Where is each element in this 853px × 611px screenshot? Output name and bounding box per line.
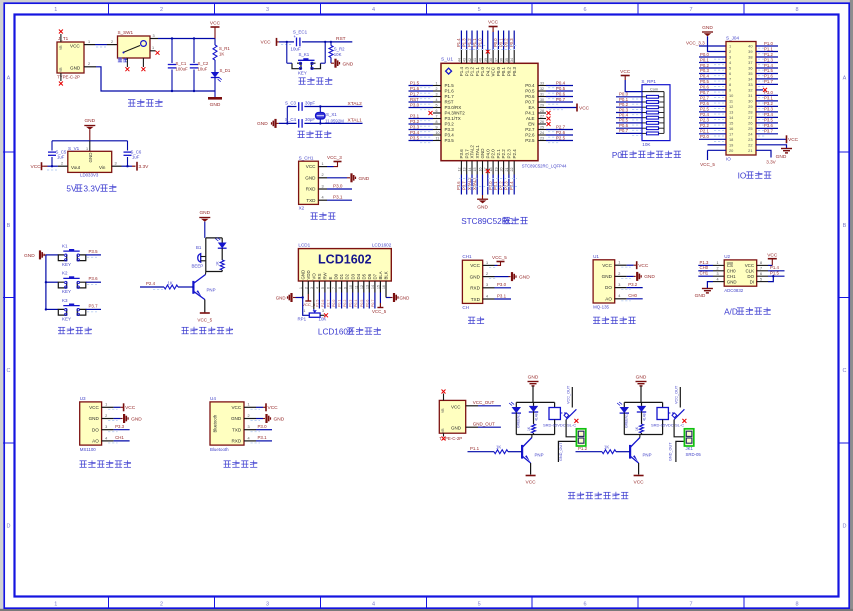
svg-text:13: 13 xyxy=(729,110,733,115)
svg-text:CH0: CH0 xyxy=(727,269,736,274)
no-ERC cross RP1 right xyxy=(324,313,328,317)
chip top pin 35 P0.2 xyxy=(504,31,512,77)
svg-text:GND: GND xyxy=(528,375,539,381)
svg-text:SRD-05VDC-SL-C: SRD-05VDC-SL-C xyxy=(543,422,576,427)
svg-text:P2.5: P2.5 xyxy=(700,107,709,112)
caption relay control circuit xyxy=(568,492,628,499)
resistor network S_RP1 10K xyxy=(641,79,670,147)
svg-text:P2.7: P2.7 xyxy=(700,96,709,101)
chip right pin 31 P0.6 xyxy=(525,91,573,99)
svg-text:1: 1 xyxy=(152,46,154,50)
svg-text:24: 24 xyxy=(540,131,544,135)
svg-text:D1: D1 xyxy=(339,273,344,279)
svg-text:LCD1: LCD1 xyxy=(298,243,310,248)
stub bottom TYPE-C relay xyxy=(442,433,446,440)
svg-text:15: 15 xyxy=(473,168,477,172)
wire GND_OUT branch P1.2 xyxy=(668,441,684,462)
svg-text:P2.2: P2.2 xyxy=(498,181,503,190)
svg-text:1: 1 xyxy=(105,403,107,407)
svg-text:14: 14 xyxy=(468,168,472,172)
svg-text:8: 8 xyxy=(729,82,731,87)
label kaiguan switch xyxy=(118,58,128,62)
svg-text:K3: K3 xyxy=(62,298,68,303)
svg-text:P0.2: P0.2 xyxy=(343,300,347,307)
chip left pin 10 P3.4 xyxy=(409,130,455,138)
svg-text:P1.0: P1.0 xyxy=(480,67,485,77)
svg-text:U1: U1 xyxy=(593,254,599,259)
svg-text:9: 9 xyxy=(729,88,731,93)
resistor 1K relay branch P1.1 xyxy=(527,424,536,435)
svg-text:11: 11 xyxy=(436,137,440,141)
chip right pin 27 ALE xyxy=(526,115,551,122)
pin 2 download to GND xyxy=(318,173,369,182)
transistor PNP relay P1.1 xyxy=(522,435,543,464)
svg-text:DI: DI xyxy=(750,279,754,284)
svg-text:P0.5: P0.5 xyxy=(619,118,629,123)
svg-text:P0.5: P0.5 xyxy=(525,89,535,94)
wire emitter to VCC relay P1.2 xyxy=(634,463,645,486)
svg-text:2: 2 xyxy=(618,272,620,276)
svg-text:B: B xyxy=(7,223,11,229)
svg-text:P3.6: P3.6 xyxy=(456,181,461,190)
svg-text:2: 2 xyxy=(729,49,731,54)
chip right pin 29 EA xyxy=(528,104,589,112)
svg-text:P1.5: P1.5 xyxy=(764,68,773,73)
svg-text:GND: GND xyxy=(776,154,787,160)
pullup resistor element P0.7 xyxy=(616,128,664,135)
svg-text:38: 38 xyxy=(748,55,752,60)
svg-text:GND: GND xyxy=(477,205,488,211)
svg-text:P3.3: P3.3 xyxy=(445,127,455,132)
svg-text:VCC_5: VCC_5 xyxy=(700,162,715,167)
module U4 pin 1 VCC xyxy=(244,403,278,412)
svg-text:P2.6: P2.6 xyxy=(321,300,325,307)
svg-text:P0.2: P0.2 xyxy=(619,102,629,107)
chip bottom pin 18 P2.0 xyxy=(488,149,496,195)
chip left pin 9 P3.3 xyxy=(409,124,455,132)
svg-text:7: 7 xyxy=(436,115,438,119)
io header row 11 xyxy=(699,96,778,104)
svg-text:7: 7 xyxy=(760,267,762,271)
svg-text:X2: X2 xyxy=(299,206,305,211)
ground GND io bottom right xyxy=(776,149,792,161)
svg-text:5: 5 xyxy=(478,602,481,608)
svg-text:S_V1: S_V1 xyxy=(68,146,80,151)
ADC U2 ADC0832 xyxy=(724,254,757,293)
svg-text:2: 2 xyxy=(436,87,438,91)
LCD module LCD1 box xyxy=(298,243,391,281)
io header row 20 xyxy=(708,148,772,158)
svg-text:KEY: KEY xyxy=(298,71,307,76)
pin 2 of J_T1 GND xyxy=(84,62,96,67)
LED alarm xyxy=(215,238,226,261)
svg-text:1: 1 xyxy=(88,40,90,44)
chip top pin 41 P1.1 xyxy=(472,31,480,77)
svg-text:3.3V: 3.3V xyxy=(766,160,776,165)
resistor S_R1 1K xyxy=(213,39,230,61)
svg-text:VCC: VCC xyxy=(602,263,612,268)
svg-text:VB: VB xyxy=(441,428,445,433)
svg-text:17: 17 xyxy=(729,131,733,136)
ground GND relay P1.2 xyxy=(636,375,647,403)
ground GND adc xyxy=(695,289,713,300)
relay switch contact P1.1 xyxy=(560,385,578,423)
svg-text:P0.5: P0.5 xyxy=(360,300,364,307)
svg-text:S_C3: S_C3 xyxy=(285,100,297,105)
power port VCC top right xyxy=(211,27,220,39)
svg-text:P2.3: P2.3 xyxy=(504,181,509,190)
svg-text:P3.0: P3.0 xyxy=(764,90,773,95)
capacitor S_C1 100uF xyxy=(168,39,188,92)
svg-text:P2.2: P2.2 xyxy=(501,149,506,159)
svg-text:GND: GND xyxy=(231,416,242,421)
chip right pin 23 P2.5 xyxy=(525,135,573,143)
chip bottom pin 21 P2.3 xyxy=(504,149,512,195)
svg-text:CH1: CH1 xyxy=(462,254,472,259)
svg-text:Vin: Vin xyxy=(99,165,106,170)
connector TYPE-C-2P relay power xyxy=(439,400,465,441)
svg-text:P0.0: P0.0 xyxy=(700,52,709,57)
svg-text:39: 39 xyxy=(748,49,752,54)
svg-text:MQ-135: MQ-135 xyxy=(593,305,609,310)
svg-text:GND_OUT: GND_OUT xyxy=(473,421,495,426)
svg-text:3: 3 xyxy=(266,7,269,13)
svg-text:P2.2: P2.2 xyxy=(700,123,709,128)
chip left pin 4 RST xyxy=(409,97,454,105)
chip top pin 38 VCC xyxy=(489,32,496,77)
svg-text:CH: CH xyxy=(462,305,469,310)
svg-text:31: 31 xyxy=(540,93,544,97)
LCD pin 14 D7 xyxy=(371,273,378,308)
no-ERC cross J_T1 bottom xyxy=(59,82,63,86)
svg-text:BEEP: BEEP xyxy=(192,264,204,269)
ADC left pin 1 xyxy=(698,260,724,266)
module U3 pin 4 CH1 xyxy=(102,435,130,443)
svg-text:1: 1 xyxy=(618,261,620,265)
LED relay P1.1 xyxy=(509,402,521,435)
serial pin 4 P3.1 xyxy=(483,293,511,299)
caption benzene detection module xyxy=(593,317,636,324)
LCD pin 15 BLA xyxy=(372,271,387,314)
svg-text:DO: DO xyxy=(92,427,99,432)
svg-text:P0.4: P0.4 xyxy=(700,74,709,79)
svg-text:P0.1: P0.1 xyxy=(700,57,709,62)
svg-text:S_RP1: S_RP1 xyxy=(641,79,656,84)
svg-text:2: 2 xyxy=(486,272,488,276)
key K3 xyxy=(45,298,101,322)
svg-text:GND: GND xyxy=(210,102,221,108)
key K2 xyxy=(45,271,101,295)
svg-text:P2.6: P2.6 xyxy=(556,130,566,135)
svg-text:RP1: RP1 xyxy=(298,317,307,322)
svg-text:RST: RST xyxy=(336,36,346,42)
ADC right pin 5 xyxy=(757,275,775,282)
io header row 14 xyxy=(699,112,778,120)
svg-text:34: 34 xyxy=(510,58,514,62)
wire io pin1 VCC_3.3 xyxy=(699,45,726,47)
wire right branch key to rail xyxy=(324,42,326,63)
pin 1 download to VCC_3 xyxy=(318,155,342,167)
svg-text:GND_OUT: GND_OUT xyxy=(559,442,563,461)
svg-text:P3.1/TX: P3.1/TX xyxy=(445,116,461,121)
svg-text:10: 10 xyxy=(436,131,440,135)
svg-text:33: 33 xyxy=(540,82,544,86)
svg-text:4: 4 xyxy=(322,196,324,200)
module U4 pin 4 P3.1 xyxy=(244,435,272,443)
svg-text:9: 9 xyxy=(436,126,438,130)
selection dashes chip bottom xyxy=(459,179,517,187)
svg-text:S_C2: S_C2 xyxy=(198,61,209,66)
svg-text:P2.0: P2.0 xyxy=(491,149,496,159)
svg-text:37: 37 xyxy=(748,60,752,65)
svg-text:P1.7: P1.7 xyxy=(764,79,773,84)
svg-text:C: C xyxy=(843,368,847,374)
svg-text:P2.7: P2.7 xyxy=(556,124,566,129)
svg-text:P2.4: P2.4 xyxy=(512,149,517,159)
svg-text:31: 31 xyxy=(748,93,752,98)
module U1 pin 4 CH0 xyxy=(615,293,643,301)
caption bluetooth module xyxy=(224,460,258,467)
svg-text:IO: IO xyxy=(726,157,731,162)
svg-text:XTAL1: XTAL1 xyxy=(348,118,363,124)
io header row 3 xyxy=(699,52,778,60)
svg-text:3: 3 xyxy=(618,283,620,287)
chip top pin 34 P0.3 xyxy=(509,31,517,77)
chip left pin 2 P1.6 xyxy=(409,86,455,94)
chip bottom pin 12 P3.6 xyxy=(456,149,464,195)
io header row 9 xyxy=(699,85,767,93)
svg-text:CH0: CH0 xyxy=(628,293,637,298)
ground GND io top xyxy=(702,25,713,36)
svg-text:VCC: VCC xyxy=(451,404,461,409)
svg-text:P0.7: P0.7 xyxy=(556,97,566,102)
svg-text:10K: 10K xyxy=(642,142,651,147)
svg-text:P3.7: P3.7 xyxy=(464,149,469,159)
svg-text:2: 2 xyxy=(160,7,163,13)
svg-text:LD033V3: LD033V3 xyxy=(80,173,99,178)
svg-text:35: 35 xyxy=(748,71,752,76)
module U1 pin 2 GND xyxy=(615,272,656,281)
io header row 15 xyxy=(699,118,778,126)
power port VCC chip top xyxy=(488,20,499,33)
svg-text:27: 27 xyxy=(540,115,544,119)
svg-text:1: 1 xyxy=(436,82,438,86)
svg-text:GND: GND xyxy=(199,210,210,216)
ground GND ldo top xyxy=(84,118,95,141)
svg-text:28: 28 xyxy=(540,109,544,113)
svg-text:S_D1: S_D1 xyxy=(220,68,231,73)
svg-text:23: 23 xyxy=(540,137,544,141)
LCD pin 16 BLK xyxy=(382,271,388,297)
svg-text:P1.5: P1.5 xyxy=(410,80,420,85)
svg-text:SRD-05VDC-SL-C: SRD-05VDC-SL-C xyxy=(651,422,684,427)
svg-text:VCC_OUT: VCC_OUT xyxy=(473,400,495,405)
svg-text:S_C1: S_C1 xyxy=(176,61,187,66)
svg-text:VCC: VCC xyxy=(306,164,316,169)
svg-text:8: 8 xyxy=(760,261,762,265)
ADC left pin 3 xyxy=(698,271,724,277)
svg-text:VCC_3.3: VCC_3.3 xyxy=(686,41,705,46)
svg-text:27: 27 xyxy=(748,115,752,120)
pullup resistor element P0.2 xyxy=(616,102,664,110)
svg-text:P1.3: P1.3 xyxy=(700,260,709,265)
svg-text:1: 1 xyxy=(486,261,488,265)
pin 1 of J_T1 VCC xyxy=(84,40,95,45)
chip left pin 7 P3.1/TX xyxy=(409,113,461,121)
svg-text:P0.3: P0.3 xyxy=(512,67,517,77)
svg-text:P0.2: P0.2 xyxy=(700,63,709,68)
svg-text:3: 3 xyxy=(717,272,719,276)
LCD pin 11 D4 xyxy=(354,273,361,308)
stub top TYPE-C relay xyxy=(442,390,446,401)
svg-text:30pF: 30pF xyxy=(305,117,315,122)
svg-text:P0.2: P0.2 xyxy=(507,67,512,77)
io header row 12 xyxy=(699,101,778,109)
svg-text:44: 44 xyxy=(457,58,461,62)
ADC right pin 6 xyxy=(757,271,785,277)
terminal block connector P1.1 xyxy=(576,429,585,446)
svg-text:P0: P0 xyxy=(612,151,622,160)
svg-text:P0.0: P0.0 xyxy=(332,300,336,307)
io header row 17 xyxy=(699,129,778,137)
chip top pin 43 P1.3 xyxy=(462,31,470,77)
svg-text:PNP: PNP xyxy=(535,453,544,458)
ground GND lcd left xyxy=(276,293,303,302)
svg-text:16: 16 xyxy=(479,168,483,172)
svg-text:J_T1: J_T1 xyxy=(58,36,69,41)
svg-text:GND: GND xyxy=(636,375,647,381)
svg-text:1K: 1K xyxy=(219,52,224,57)
svg-text:P1.4: P1.4 xyxy=(459,67,464,77)
svg-text:Bluetooth: Bluetooth xyxy=(210,447,229,452)
svg-text:BLA: BLA xyxy=(378,271,383,279)
svg-text:TXD: TXD xyxy=(471,297,481,302)
pullup resistor element P0.3 xyxy=(616,107,664,114)
capacitor S_C3 30pF xyxy=(285,100,315,111)
svg-text:3: 3 xyxy=(153,34,155,38)
ground GND lcd right xyxy=(386,293,409,302)
svg-text:P0.5: P0.5 xyxy=(700,79,709,84)
wire GND to io pin2 xyxy=(708,36,727,51)
svg-text:3: 3 xyxy=(105,425,107,429)
svg-text:P3.1: P3.1 xyxy=(258,435,268,440)
svg-text:RXD: RXD xyxy=(306,187,316,192)
relay switch contact P1.2 xyxy=(668,385,686,423)
svg-text:4: 4 xyxy=(248,436,250,440)
svg-text:1: 1 xyxy=(248,403,250,407)
svg-text:GND: GND xyxy=(695,293,706,299)
svg-text:P1.1: P1.1 xyxy=(475,67,480,77)
svg-text:GREEN1: GREEN1 xyxy=(517,414,521,428)
svg-text:3: 3 xyxy=(266,602,269,608)
svg-text:GND: GND xyxy=(131,416,142,422)
svg-text:2: 2 xyxy=(61,161,63,165)
LED S_D1 xyxy=(211,60,231,91)
svg-text:GND: GND xyxy=(702,25,713,31)
caption download port xyxy=(311,212,336,219)
svg-text:P3.6: P3.6 xyxy=(89,276,99,281)
diode 1N4148 relay P1.2 xyxy=(637,402,647,424)
svg-text:2: 2 xyxy=(105,414,107,418)
svg-text:3: 3 xyxy=(248,425,250,429)
svg-text:ALE: ALE xyxy=(526,116,535,121)
LCD pin 1 GND xyxy=(299,270,305,298)
svg-text:U4: U4 xyxy=(210,396,216,401)
svg-text:TYPE-C-2P: TYPE-C-2P xyxy=(439,436,462,441)
ground GND power circuit xyxy=(208,91,222,108)
svg-text:P0.6: P0.6 xyxy=(556,91,566,96)
svg-text:GND: GND xyxy=(88,152,93,163)
pullup resistor element P0.6 xyxy=(616,123,664,130)
svg-text:6: 6 xyxy=(729,71,731,76)
pullup resistor element P0.4 xyxy=(616,113,664,120)
svg-text:3.3V: 3.3V xyxy=(84,185,101,194)
svg-text:100uF: 100uF xyxy=(176,67,189,72)
svg-text:LCD1602: LCD1602 xyxy=(318,328,353,337)
key button S_K1 xyxy=(292,52,321,76)
svg-text:VCC: VCC xyxy=(210,21,221,27)
svg-text:GND: GND xyxy=(359,176,370,182)
power port VCC reset xyxy=(261,38,280,46)
chip left pin 6 P4.3/INT2 xyxy=(429,109,466,116)
MCU S_U1 STC89C52RC LQFP44 xyxy=(441,57,567,169)
svg-text:P3.7: P3.7 xyxy=(764,129,773,134)
LCD pin 9 D2 xyxy=(343,273,350,308)
svg-text:25: 25 xyxy=(748,126,752,131)
label JK1 SRD-05 xyxy=(686,446,702,457)
svg-text:5V: 5V xyxy=(66,185,77,194)
svg-text:S_J04: S_J04 xyxy=(726,36,739,41)
svg-text:P1.4: P1.4 xyxy=(764,63,773,68)
svg-text:GND: GND xyxy=(257,121,268,127)
svg-text:1uF: 1uF xyxy=(57,155,65,160)
serial pin 2 to GND xyxy=(483,272,530,281)
svg-text:11: 11 xyxy=(729,99,733,104)
svg-text:P1.5: P1.5 xyxy=(770,271,779,276)
svg-text:7: 7 xyxy=(689,602,692,608)
svg-text:12: 12 xyxy=(457,168,461,172)
svg-text:VCC: VCC xyxy=(634,480,645,486)
module U4 pin 2 GND xyxy=(244,414,285,423)
svg-text:Bluetooth: Bluetooth xyxy=(213,414,218,432)
svg-text:P0.5: P0.5 xyxy=(556,86,566,91)
svg-text:37: 37 xyxy=(494,58,498,62)
svg-text:MS1100: MS1100 xyxy=(80,447,97,452)
wire GND_OUT xyxy=(466,421,501,427)
svg-text:P3.1: P3.1 xyxy=(410,113,420,118)
svg-text:P3.6: P3.6 xyxy=(459,149,464,159)
svg-text:2: 2 xyxy=(322,173,324,177)
junction dot crystal left xyxy=(286,122,288,124)
connector S_CH1 download xyxy=(299,155,319,210)
svg-text:IO: IO xyxy=(738,172,747,181)
svg-text:P0.7: P0.7 xyxy=(700,90,709,95)
svg-text:RXD: RXD xyxy=(231,439,241,444)
svg-text:VB: VB xyxy=(59,67,63,72)
capacitor S_C6 1uF xyxy=(124,141,142,166)
svg-text:36: 36 xyxy=(748,66,752,71)
svg-text:P0.7: P0.7 xyxy=(525,100,535,105)
wire relay bottom rail P1.2 xyxy=(624,434,662,436)
svg-text:TXD: TXD xyxy=(306,198,316,203)
svg-text:P1.1: P1.1 xyxy=(470,446,480,451)
svg-text:P3.0: P3.0 xyxy=(410,102,420,107)
svg-text:39: 39 xyxy=(484,58,488,62)
svg-text:XTAL2: XTAL2 xyxy=(348,101,363,107)
wire relay top rail P1.1 xyxy=(516,401,554,403)
svg-text:26: 26 xyxy=(540,120,544,124)
svg-text:P3.6: P3.6 xyxy=(764,123,773,128)
